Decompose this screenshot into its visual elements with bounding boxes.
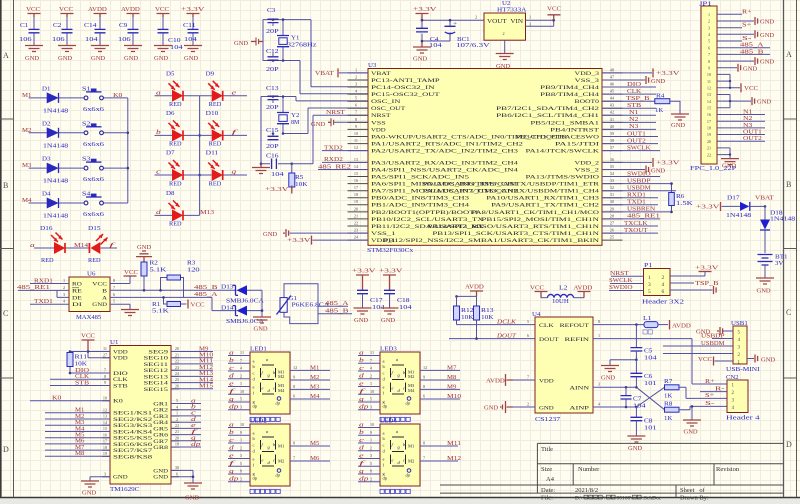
wire matrix row 1 right (200, 95, 247, 97)
wire JP1-3 S+ (717, 27, 742, 29)
svg-text:R7: R7 (664, 379, 672, 385)
LED3 inner right names (408, 370, 415, 393)
svg-text:27: 27 (103, 352, 107, 357)
svg-text:VSS_2: VSS_2 (575, 168, 600, 173)
svg-text:VCC: VCC (698, 357, 712, 363)
svg-text:VDD_2: VDD_2 (575, 161, 600, 166)
svg-text:R12: R12 (461, 308, 474, 314)
wire seg f (171, 434, 201, 436)
junction dots crystal2 (260, 95, 293, 165)
svg-text:OUT2: OUT2 (743, 136, 762, 142)
ground (U1 right) (171, 470, 193, 482)
wire G1 485_A (318, 305, 348, 307)
svg-text:104: 104 (429, 43, 442, 49)
svg-text:5.1K: 5.1K (150, 268, 168, 274)
svg-text:6x6x6: 6x6x6 (83, 177, 104, 183)
svg-text:5: 5 (648, 289, 651, 295)
svg-text:Y2: Y2 (291, 113, 299, 119)
svg-text:M14: M14 (199, 377, 213, 383)
svg-text:GND: GND (413, 57, 428, 63)
svg-text:5: 5 (708, 39, 710, 44)
svg-text:REFIN: REFIN (565, 338, 590, 343)
resistor R8 (665, 407, 680, 412)
svg-text:TSP_B: TSP_B (626, 96, 650, 102)
svg-text:106: 106 (52, 37, 65, 43)
svg-text:20: 20 (354, 206, 358, 211)
svg-text:a: a (229, 350, 234, 356)
svg-text:47: 47 (610, 74, 614, 79)
svg-text:10: 10 (103, 395, 107, 400)
capacitor C8 (635, 407, 637, 417)
LED1 pin e (228, 386, 250, 388)
svg-text:c: c (383, 443, 385, 448)
svg-text:2: 2 (355, 74, 357, 79)
svg-text:1.5K: 1.5K (676, 201, 694, 207)
svg-text:e: e (383, 457, 385, 462)
svg-text:39: 39 (610, 131, 614, 136)
ground (C8) (627, 436, 645, 442)
capacitor C11 (192, 17, 194, 45)
LED3 out M7 (420, 369, 460, 371)
resistor R1 (164, 297, 187, 304)
ground port (USB1-5) (723, 330, 733, 332)
svg-text:M7: M7 (75, 445, 84, 451)
svg-text:27: 27 (610, 220, 614, 225)
svg-text:2: 2 (240, 445, 242, 450)
svg-text:M14: M14 (74, 243, 88, 249)
svg-text:6x6x6: 6x6x6 (83, 107, 104, 113)
svg-text:e: e (359, 453, 364, 459)
wire AINN (593, 386, 636, 388)
svg-text:SEG12: SEG12 (144, 369, 169, 374)
svg-text:File:: File: (541, 495, 553, 502)
LED4 pin f (358, 465, 380, 467)
svg-text:CLK: CLK (75, 374, 90, 380)
svg-text:M8: M8 (75, 451, 84, 457)
svg-text:9: 9 (240, 430, 242, 435)
wire JP1-10/11/12 VCC (717, 74, 740, 87)
ground (C11) (184, 46, 202, 52)
svg-text:R13: R13 (481, 308, 494, 314)
ground (reg tab) (504, 40, 506, 53)
svg-text:R2: R2 (150, 261, 158, 267)
svg-text:GND: GND (539, 406, 554, 411)
svg-text:20: 20 (175, 436, 179, 441)
svg-text:6: 6 (708, 45, 710, 50)
LED2 pin d (228, 450, 250, 452)
wire AINP (593, 406, 636, 408)
svg-text:dp: dp (253, 475, 258, 480)
svg-text:C3: C3 (267, 8, 275, 14)
wire seg a (171, 403, 201, 405)
svg-text:GND: GND (311, 122, 326, 128)
svg-text:8: 8 (104, 374, 106, 379)
svg-text:GND: GND (484, 406, 499, 412)
wire M2 (45, 418, 110, 420)
svg-text:GND: GND (684, 430, 699, 436)
svg-text:2021/8/2: 2021/8/2 (575, 487, 598, 494)
LED3 pin b (358, 362, 380, 364)
ground (C9) (124, 46, 142, 52)
svg-text:AVDD: AVDD (672, 323, 692, 329)
svg-text:104: 104 (644, 356, 657, 362)
LED2 inner right names (278, 444, 284, 464)
LED2 out M6 (290, 460, 330, 462)
ground port (pin35) (602, 169, 645, 171)
ground (U1 pin3) (90, 477, 110, 481)
svg-text:1N4148: 1N4148 (43, 143, 68, 149)
svg-text:PB6/I2C1_SCL/TIM4_CH1: PB6/I2C1_SCL/TIM4_CH1 (496, 114, 600, 119)
svg-text:RE: RE (72, 289, 82, 294)
LED4 inner pin letters (383, 430, 388, 480)
svg-text:Revision: Revision (716, 466, 740, 473)
svg-text:b: b (229, 358, 234, 364)
LED4 inner right names (408, 444, 414, 464)
svg-text:1K: 1K (655, 108, 664, 114)
svg-text:485_A: 485_A (194, 292, 218, 298)
LED2 pin a (228, 427, 250, 429)
svg-text:M4: M4 (408, 388, 415, 393)
svg-text:VCC: VCC (547, 7, 561, 13)
svg-text:28: 28 (610, 213, 614, 218)
svg-text:R+: R+ (742, 9, 752, 15)
svg-text:15: 15 (103, 426, 107, 431)
svg-text:12: 12 (293, 365, 297, 370)
svg-text:SEG7/KS7: SEG7/KS7 (113, 449, 153, 454)
capacitor C18 (384, 290, 395, 293)
svg-text:1K: 1K (664, 416, 673, 422)
svg-text:5.1K: 5.1K (152, 309, 170, 315)
svg-text:6: 6 (293, 394, 295, 399)
svg-text:485_B: 485_B (194, 285, 218, 291)
svg-text:N3: N3 (743, 123, 752, 129)
LED1 inner pin letters (253, 358, 258, 408)
svg-text:GND: GND (92, 303, 107, 308)
wire matrix row 1 left (155, 95, 200, 97)
svg-text:S+: S+ (705, 393, 715, 399)
svg-text:48: 48 (610, 67, 614, 72)
svg-text:M5: M5 (75, 433, 84, 439)
wire M13 (171, 375, 213, 377)
svg-text:10K: 10K (461, 315, 474, 321)
svg-text:104: 104 (184, 37, 197, 43)
svg-text:485_B: 485_B (325, 309, 349, 315)
svg-text:G1: G1 (289, 296, 297, 302)
svg-text:VDD: VDD (539, 379, 554, 384)
svg-text:b: b (191, 405, 196, 411)
LED3 pin dp (358, 409, 380, 411)
svg-text:38: 38 (610, 138, 614, 143)
svg-text:g: g (229, 469, 234, 475)
svg-text:D17: D17 (727, 196, 740, 202)
svg-text:dp: dp (383, 403, 388, 408)
svg-text:RED: RED (169, 102, 182, 108)
svg-text:OSC_IN: OSC_IN (371, 100, 401, 105)
capacitor C10 (162, 17, 164, 45)
ground port (pin47) (602, 79, 645, 81)
svg-text:104: 104 (399, 305, 412, 311)
svg-text:20P: 20P (266, 29, 279, 35)
svg-text:Sheet of: Sheet of (680, 487, 706, 494)
wire M3 (45, 424, 110, 426)
svg-text:GND: GND (601, 376, 616, 382)
wire USBDM (663, 345, 733, 347)
svg-text:PB2/BOOT1(OPTPB)/BOOT1: PB2/BOOT1(OPTPB)/BOOT1 (371, 211, 480, 216)
svg-text:33: 33 (610, 178, 614, 183)
svg-text:18: 18 (175, 442, 179, 447)
svg-text:PA3/USART2_RX/ADC_IN3/TIM2_CH4: PA3/USART2_RX/ADC_IN3/TIM2_CH4 (371, 161, 519, 166)
svg-text:VSS_1: VSS_1 (371, 232, 396, 237)
svg-text:SEG5/KS5: SEG5/KS5 (113, 437, 153, 442)
svg-text:11: 11 (370, 350, 374, 355)
svg-text:M2: M2 (75, 414, 84, 420)
svg-text:5: 5 (240, 461, 242, 466)
svg-text:SEG15: SEG15 (144, 388, 169, 393)
svg-text:15: 15 (354, 171, 358, 176)
svg-text:Date:: Date: (541, 487, 555, 494)
svg-text:1: 1 (598, 333, 600, 338)
svg-text:GND: GND (651, 168, 666, 174)
wire seg g (171, 440, 201, 442)
svg-text:c: c (359, 438, 364, 444)
svg-text:8: 8 (370, 469, 372, 474)
svg-text:+3.3V: +3.3V (656, 71, 681, 77)
svg-text:30: 30 (175, 465, 179, 470)
LED1 inner right names (278, 370, 285, 393)
svg-text:2: 2 (370, 476, 372, 481)
wire OSC left bus (260, 97, 262, 164)
wire net 485_A (110, 297, 237, 310)
svg-text:SEG1/KS1: SEG1/KS1 (113, 412, 153, 417)
svg-text:25: 25 (610, 235, 614, 240)
port AVDD (L1) (669, 320, 671, 330)
svg-text:11: 11 (707, 79, 711, 84)
svg-text:VOUT VIN: VOUT VIN (487, 18, 523, 25)
svg-text:USB-MINI: USB-MINI (726, 367, 760, 373)
svg-text:106: 106 (118, 37, 131, 43)
svg-text:+3.3V: +3.3V (265, 187, 290, 193)
svg-text:C10: C10 (168, 38, 181, 44)
svg-text:6: 6 (527, 333, 529, 338)
svg-text:GND: GND (91, 56, 106, 62)
svg-text:AVDD: AVDD (574, 286, 594, 292)
svg-text:10: 10 (240, 389, 244, 394)
wire NRST (292, 115, 368, 163)
svg-text:M1: M1 (278, 444, 284, 449)
svg-text:MAX485: MAX485 (76, 315, 101, 321)
svg-text:35: 35 (610, 164, 614, 169)
svg-text:C14: C14 (84, 23, 97, 29)
LED3 inner pin letters (383, 358, 388, 408)
svg-text:VDD: VDD (113, 350, 128, 355)
svg-text:23: 23 (354, 228, 358, 233)
svg-text:GND: GND (58, 56, 73, 62)
capacitor C6 (635, 360, 637, 373)
ground (C2) (58, 46, 76, 52)
ground (D13/D14) (247, 311, 262, 317)
svg-text:3: 3 (240, 453, 242, 458)
LED3 out M10 (420, 398, 460, 400)
svg-text:PB9/TIM4_CH4: PB9/TIM4_CH4 (540, 86, 600, 91)
svg-text:dp: dp (406, 473, 411, 478)
svg-text:8: 8 (423, 384, 425, 389)
svg-text:dp: dp (359, 477, 368, 483)
svg-text:M12: M12 (447, 456, 461, 462)
svg-text:M9: M9 (199, 346, 208, 352)
wire D16-D15 row (34, 247, 117, 249)
LED3 pin a (358, 355, 380, 357)
svg-text:PA4/SPI1_NSS/USART2_CK/ADC_IN4: PA4/SPI1_NSS/USART2_CK/ADC_IN4 (371, 168, 519, 173)
svg-text:107/6.3V: 107/6.3V (456, 43, 491, 49)
LED1 pin dp (228, 409, 250, 411)
svg-text:e: e (229, 453, 234, 459)
svg-text:5: 5 (176, 398, 178, 403)
svg-text:8: 8 (598, 319, 600, 324)
svg-text:PA5/SPI1_SCK/ADC_IN5: PA5/SPI1_SCK/ADC_IN5 (371, 175, 470, 180)
svg-text:e: e (383, 385, 385, 390)
LED2 pin b (228, 434, 250, 436)
svg-text:RED: RED (209, 142, 222, 148)
wire matrix row 2 left (155, 134, 200, 136)
wire JP1-18 N3 (717, 127, 765, 129)
wire matrix row 2 right (200, 134, 247, 136)
svg-text:D15: D15 (88, 226, 101, 232)
svg-text:1N4148: 1N4148 (43, 108, 68, 114)
svg-text:GND: GND (137, 245, 152, 251)
svg-text:1: 1 (240, 381, 242, 386)
wire OSC top bus (261, 97, 368, 101)
svg-text:RED: RED (209, 102, 222, 108)
wire M5 (45, 437, 110, 439)
svg-text:485_B: 485_B (740, 49, 764, 55)
svg-text:M2: M2 (408, 459, 414, 464)
svg-text:e: e (262, 458, 264, 463)
svg-text:M1: M1 (75, 408, 84, 414)
svg-text:USBDM: USBDM (701, 341, 725, 347)
svg-text:C6: C6 (644, 374, 652, 380)
svg-text:VCC: VCC (92, 282, 108, 287)
svg-text:PA14/JTCK/SWCLK: PA14/JTCK/SWCLK (526, 150, 600, 155)
svg-text:2: 2 (63, 285, 65, 290)
wire key row 2 (29, 132, 128, 134)
wire DOUT (449, 338, 535, 340)
crystal Y1 (282, 20, 284, 61)
svg-text:VCC: VCC (59, 7, 73, 13)
svg-text:45: 45 (610, 89, 614, 94)
ground (JP1-2) (717, 20, 754, 22)
svg-text:NRST: NRST (326, 110, 345, 116)
svg-text:R3: R3 (187, 261, 195, 267)
svg-text:19: 19 (354, 199, 358, 204)
wire matrix row 3 right (200, 174, 247, 176)
svg-text:17: 17 (707, 119, 711, 124)
svg-text:8: 8 (113, 278, 115, 283)
svg-text:M8: M8 (447, 375, 456, 381)
svg-text:8: 8 (293, 441, 295, 446)
svg-text:2: 2 (662, 275, 665, 281)
svg-text:5: 5 (370, 397, 372, 402)
svg-text:C12: C12 (266, 49, 279, 55)
svg-text:Y1: Y1 (291, 36, 299, 42)
svg-text:GND: GND (254, 327, 269, 333)
svg-text:+3.3V: +3.3V (352, 269, 377, 275)
svg-text:36: 36 (610, 157, 614, 162)
svg-text:e: e (262, 386, 264, 391)
svg-text:D10: D10 (206, 111, 219, 117)
svg-text:+3.3V: +3.3V (181, 7, 206, 13)
svg-text:5: 5 (240, 397, 242, 402)
LED1 pin d (228, 378, 250, 380)
svg-text:GND: GND (25, 56, 40, 62)
ground (C16) (260, 164, 262, 167)
svg-text:AINN: AINN (569, 387, 589, 392)
svg-text:Header 3X2: Header 3X2 (642, 300, 684, 306)
svg-text:+3.3V: +3.3V (287, 238, 312, 244)
svg-text:9: 9 (293, 375, 295, 380)
svg-text:SEG4/KS4: SEG4/KS4 (113, 430, 153, 435)
svg-text:+: + (453, 22, 457, 27)
svg-text:A4: A4 (546, 476, 555, 483)
svg-text:c: c (253, 371, 255, 376)
svg-text:M12: M12 (199, 365, 213, 371)
svg-text:18: 18 (103, 445, 107, 450)
svg-text:PB10/I2C2_SCL/USART3_TX: PB10/I2C2_SCL/USART3_TX (371, 218, 484, 223)
svg-text:Header 4: Header 4 (726, 416, 760, 422)
svg-text:7: 7 (370, 358, 372, 363)
svg-text:1N4148: 1N4148 (770, 217, 795, 223)
svg-text:2: 2 (503, 31, 505, 36)
svg-text:CS1237: CS1237 (535, 417, 560, 423)
svg-text:1: 1 (648, 275, 651, 281)
svg-text:10: 10 (354, 131, 358, 136)
svg-text:37: 37 (610, 145, 614, 150)
power VCC (R1) (187, 300, 189, 309)
svg-text:7: 7 (104, 368, 106, 373)
svg-text:M15: M15 (199, 384, 213, 390)
svg-text:PB4/INTRST: PB4/INTRST (550, 128, 599, 133)
LED3 pin d (358, 378, 380, 380)
svg-text:dp: dp (276, 473, 281, 478)
svg-text:M3: M3 (310, 384, 319, 390)
svg-text:1: 1 (176, 411, 178, 416)
svg-text:e: e (232, 90, 237, 96)
svg-text:1N4148: 1N4148 (43, 179, 68, 185)
svg-text:M9: M9 (447, 384, 456, 390)
svg-text:1N4148: 1N4148 (726, 213, 751, 219)
power VCC (U6) (110, 276, 130, 284)
svg-text:M13: M13 (199, 371, 213, 377)
wire cross AINN-R8 (636, 387, 664, 409)
svg-text:M4: M4 (75, 426, 84, 432)
svg-text:26: 26 (175, 384, 179, 389)
svg-text:1: 1 (370, 381, 372, 386)
svg-text:a: a (383, 430, 385, 435)
svg-text:1: 1 (63, 278, 65, 283)
svg-text:GR2: GR2 (153, 409, 168, 414)
svg-text:46: 46 (610, 81, 614, 86)
svg-text:PA9/USART1_TX/TIM1_CH2: PA9/USART1_TX/TIM1_CH2 (491, 204, 600, 209)
svg-text:c: c (383, 371, 385, 376)
svg-text:DIO: DIO (113, 372, 128, 377)
LED1 out M2 (290, 379, 330, 381)
svg-text:M2: M2 (408, 374, 414, 379)
ground (JP1-8) (717, 60, 754, 62)
wire SWDIO (P1) (609, 290, 644, 292)
svg-text:M2: M2 (278, 459, 284, 464)
wire JP1-17 N2 (717, 120, 765, 122)
svg-text:c: c (359, 366, 364, 372)
wire D13 to D14 (247, 290, 262, 310)
